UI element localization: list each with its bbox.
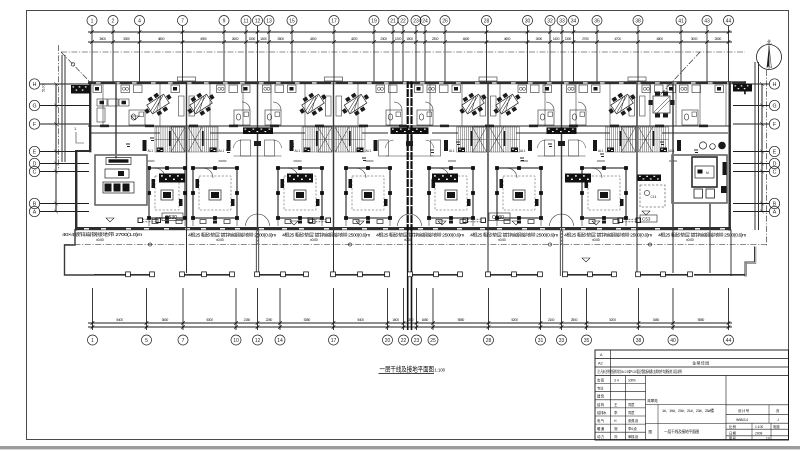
svg-text:34: 34 (571, 18, 577, 24)
svg-text:结 构: 结 构 (597, 402, 605, 407)
svg-text:10: 10 (766, 436, 770, 440)
dashed drops from party walls to loop (187, 230, 674, 245)
svg-text:李4,设: 李4,设 (628, 426, 637, 431)
svg-text:2800: 2800 (277, 37, 284, 41)
bathroom at x=394 (386, 110, 402, 125)
svg-text:H: H (773, 82, 777, 88)
svg-text:20: 20 (385, 338, 391, 344)
svg-text:4600: 4600 (463, 37, 470, 41)
svg-text:会 签: 会 签 (597, 378, 605, 383)
svg-text:AL1: AL1 (598, 149, 604, 153)
dining table group at x=507 (489, 88, 525, 121)
drawing title underline (379, 373, 435, 375)
svg-text:±0.00: ±0.00 (498, 238, 506, 242)
svg-text:7: 7 (181, 18, 184, 24)
right driveway strip edges (755, 62, 759, 230)
svg-text:40: 40 (670, 338, 676, 344)
svg-text:28: 28 (484, 18, 490, 24)
partial party wall x=116 (top band only) (115, 81, 116, 158)
svg-text:图: 图 (649, 430, 653, 434)
svg-text:4根25 粗砂垫层 镀锌扁钢接地带 2500(0.6)m: 4根25 粗砂垫层 镀锌扁钢接地带 2500(0.6)m (470, 232, 559, 239)
svg-text:11: 11 (243, 18, 248, 24)
svg-text:AL1: AL1 (449, 149, 455, 153)
svg-text:2600: 2600 (715, 37, 722, 41)
svg-text:湾翠苑: 湾翠苑 (647, 398, 658, 403)
svg-text:2008: 2008 (755, 432, 763, 436)
svg-text:5550: 5550 (458, 318, 465, 322)
svg-text:E: E (773, 149, 777, 155)
svg-text:4300: 4300 (310, 37, 317, 41)
svg-text:3450: 3450 (653, 318, 660, 322)
svg-text:G: G (32, 103, 36, 109)
svg-text:图 号: 图 号 (729, 435, 737, 440)
svg-text:5200: 5200 (511, 318, 518, 322)
svg-text:5400: 5400 (116, 318, 123, 322)
right courtyard step-up boundary (745, 247, 755, 277)
entry stoop above top wall at x=333.5 (325, 77, 343, 81)
svg-text:12: 12 (255, 338, 261, 344)
bathroom at x=546 (538, 110, 554, 125)
top dimension line upper (88, 31, 732, 33)
dining table group at x=622 (604, 88, 640, 121)
svg-text:40×4镀锌扁钢接地带 2700(1.0)m: 40×4镀锌扁钢接地带 2700(1.0)m (62, 231, 143, 238)
svg-text:页: 页 (776, 409, 780, 413)
svg-text:2: 2 (112, 18, 115, 24)
svg-text:2700: 2700 (582, 37, 589, 41)
svg-text:暖 通: 暖 通 (597, 426, 605, 431)
dining table group at x=201 (183, 88, 219, 121)
svg-text:比 例: 比 例 (729, 424, 737, 429)
svg-text:G: G (772, 103, 776, 109)
porch marks under bedrooms (152, 220, 158, 224)
courtyard party fence verticals (187, 231, 711, 274)
svg-text:北: 北 (766, 39, 771, 46)
svg-text:AL1: AL1 (295, 149, 301, 153)
svg-text:2300: 2300 (432, 37, 439, 41)
svg-text:C530: C530 (165, 215, 177, 221)
svg-text:26: 26 (442, 18, 448, 24)
svg-text:±0.00: ±0.00 (310, 238, 318, 242)
small panel blocks beside stair x=488 (444, 140, 448, 151)
dining table group at x=158 (140, 88, 176, 121)
svg-text:1400: 1400 (553, 37, 560, 41)
bathroom at x=690 (682, 110, 698, 125)
bottom grid bubbles (88, 335, 98, 345)
svg-text:C53: C53 (642, 217, 651, 222)
svg-text:±0.00: ±0.00 (216, 238, 224, 242)
party walls between units (186, 81, 187, 230)
left end-unit living room (95, 155, 147, 205)
svg-text:5300: 5300 (206, 318, 213, 322)
title block outer frame (595, 350, 789, 440)
staircase pair flanking wall x=333.5 (302, 127, 332, 152)
svg-text:AL1: AL1 (669, 149, 675, 153)
svg-text:5400: 5400 (357, 318, 364, 322)
building left wall lower (75, 150, 77, 231)
bathroom at x=578 (570, 110, 586, 125)
title block left sub-table rows (595, 384, 646, 433)
svg-text:M: M (706, 171, 709, 175)
expansion joint verticals to dimension row (408, 231, 412, 331)
svg-text:21: 21 (390, 18, 396, 24)
svg-text:同意: 同意 (628, 410, 635, 415)
dining table group at x=473 (455, 88, 491, 121)
svg-text:金陵佳园: 金陵佳园 (692, 361, 710, 366)
svg-text:同意: 同意 (628, 402, 635, 407)
svg-text:5200: 5200 (609, 318, 616, 322)
svg-text:A2: A2 (598, 362, 603, 366)
svg-text:100%: 100% (628, 379, 636, 383)
entry stoop above top wall at x=637 (628, 77, 646, 81)
left outside label block (71, 85, 90, 94)
staircase pair flanking wall x=186.5 (155, 127, 185, 152)
svg-text:C530: C530 (492, 215, 504, 221)
level marker triangles (106, 116, 650, 262)
svg-text:4800: 4800 (158, 37, 165, 41)
grounding boundary left diagonal (61, 52, 90, 82)
svg-text:一层干线及接地平面图: 一层干线及接地平面图 (664, 429, 699, 434)
small panel blocks beside stair x=186.5 (143, 140, 147, 151)
svg-text:23: 23 (413, 18, 419, 24)
small panel blocks beside stair x=333.5 (290, 140, 294, 151)
expansion joint double wall at centre (407, 81, 409, 230)
top column grid vertical lines (92, 26, 729, 84)
svg-text:1500: 1500 (406, 37, 413, 41)
svg-text:33: 33 (559, 338, 565, 344)
hall wall below stair pair x=488 (448, 160, 528, 162)
svg-text:2100: 2100 (548, 318, 555, 322)
svg-text:38: 38 (636, 338, 642, 344)
label box C530 (162, 213, 183, 221)
building left step wall (75, 150, 91, 152)
bathroom at x=425 (417, 110, 433, 125)
svg-text:32: 32 (547, 18, 553, 24)
svg-text:张勇,设: 张勇,设 (628, 418, 639, 423)
square dining table right end unit (649, 92, 675, 118)
north arrow (757, 39, 782, 70)
entry stoop above top wall at x=186.5 (178, 77, 196, 81)
bathroom at x=273 (265, 110, 281, 125)
svg-text:7: 7 (182, 338, 185, 344)
svg-text:5100: 5100 (42, 84, 46, 92)
title block left sub-table verticals (611, 376, 646, 441)
svg-text:3600: 3600 (162, 318, 169, 322)
svg-text:4根25 粗砂垫层 镀锌扁钢接地带 2500(0.6)m: 4根25 粗砂垫层 镀锌扁钢接地带 2500(0.6)m (658, 232, 747, 239)
door swing arcs (155, 102, 602, 226)
distribution label blocks (dark) (243, 127, 273, 134)
building exterior bottom wall (75, 227, 731, 230)
left vertical dimension chain (55, 84, 57, 212)
unit 637-672 dark label block (638, 175, 662, 182)
svg-text:23: 23 (414, 338, 420, 344)
svg-text:AL1: AL1 (219, 149, 225, 153)
partial party wall x=710 (lower band only) (709, 203, 710, 230)
svg-text:E: E (33, 149, 37, 155)
svg-text:30: 30 (525, 18, 531, 24)
svg-text:22: 22 (400, 18, 406, 24)
building right wall (729, 81, 731, 230)
svg-text:一层干线及接地平面图: 一层干线及接地平面图 (380, 364, 435, 373)
svg-text:24: 24 (422, 18, 428, 24)
grounding boundary left vertical (58, 45, 60, 170)
svg-text:10: 10 (233, 338, 239, 344)
left driveway step mark (76, 132, 84, 143)
svg-text:AL1: AL1 (148, 149, 154, 153)
bedroom suite at x=167 (147, 166, 187, 226)
bedroom suite at x=368 (344, 166, 392, 226)
svg-text:审核,设: 审核,设 (628, 434, 639, 439)
svg-text:AL1: AL1 (520, 149, 526, 153)
top dimension oblique ticks (90, 30, 730, 44)
bottom gray divider strip (0, 446, 800, 449)
svg-text:±0.00: ±0.00 (96, 238, 104, 242)
bedroom suite at x=300 (276, 166, 324, 226)
unit 637-672 dashed room (640, 185, 665, 207)
svg-text:1500: 1500 (249, 37, 256, 41)
hall wall below stair pair x=333.5 (294, 160, 374, 162)
svg-text:F: F (773, 122, 776, 128)
hall wall below stair pair x=637 (597, 160, 677, 162)
hallway closets and arcs at dining walls (241, 140, 251, 156)
svg-text:5: 5 (145, 338, 148, 344)
svg-text:1: 1 (91, 18, 94, 24)
svg-text:5550: 5550 (698, 318, 705, 322)
svg-text:22: 22 (401, 338, 407, 344)
svg-text:4根25 粗砂垫层 镀锌扁钢接地带 2500(0.6)m: 4根25 粗砂垫层 镀锌扁钢接地带 2500(0.6)m (376, 232, 465, 239)
svg-text:13: 13 (266, 18, 272, 24)
dining table group at x=355.5 (338, 88, 374, 121)
svg-text:A: A (33, 209, 37, 215)
svg-text:44: 44 (726, 18, 732, 24)
svg-text:1400: 1400 (260, 37, 267, 41)
svg-text:2150: 2150 (244, 318, 251, 322)
small panel blocks beside stair x=637 (593, 140, 597, 151)
left driveway strip edges (62, 55, 65, 162)
title block main horizontal rules (595, 359, 789, 376)
svg-text:4根25 粗砂垫层 镀锌扁钢接地带 2500(0.6)m: 4根25 粗砂垫层 镀锌扁钢接地带 2500(0.6)m (188, 232, 277, 239)
left end-unit kitchen block (97, 99, 107, 106)
svg-text:44: 44 (726, 338, 732, 344)
right end-unit chairs (694, 189, 703, 198)
svg-text:41: 41 (678, 18, 684, 24)
svg-text:3300: 3300 (123, 37, 130, 41)
svg-text:H: H (33, 82, 37, 88)
svg-text:4900: 4900 (200, 37, 207, 41)
svg-text:33: 33 (559, 18, 565, 24)
staircase pair flanking wall x=488 (457, 127, 487, 152)
svg-text:建 筑: 建 筑 (597, 394, 605, 399)
expansion joint rungs (407, 88, 413, 89)
svg-text:2500: 2500 (571, 318, 578, 322)
svg-text:2250: 2250 (266, 318, 273, 322)
building exterior top wall (88, 81, 746, 84)
right outside label block (733, 84, 752, 92)
svg-text:35: 35 (584, 338, 590, 344)
svg-text:17: 17 (331, 18, 337, 24)
svg-text:3 4: 3 4 (614, 379, 619, 383)
svg-text:C14: C14 (651, 195, 657, 199)
left courtyard stepped wall (65, 229, 95, 275)
svg-text:W98-S-4: W98-S-4 (736, 418, 748, 422)
svg-text:38: 38 (635, 18, 641, 24)
svg-text:12: 12 (255, 18, 261, 24)
svg-text:1:100: 1:100 (435, 367, 446, 372)
top grid bubbles (87, 16, 97, 26)
svg-text:±0.00: ±0.00 (686, 238, 694, 242)
left row grid bubbles H..A (29, 79, 39, 89)
hall wall below stair pair x=186.5 (147, 160, 227, 162)
svg-text:5350: 5350 (304, 318, 311, 322)
svg-text:1#、19#、20#、21#、23#、25#楼: 1#、19#、20#、21#、23#、25#楼 (662, 408, 714, 413)
svg-text:注:凡未注明的配线均为BV-2.5穿PC16管沿墙楼板暗敷,: 注:凡未注明的配线均为BV-2.5穿PC16管沿墙楼板暗敷,金属构件均需接地,详… (598, 369, 683, 374)
svg-text:2600: 2600 (536, 37, 543, 41)
bedroom suite at x=519 (495, 166, 543, 226)
lower distribution blocks (159, 174, 185, 183)
title block row1 divider and A (610, 350, 612, 376)
misc small marks mid band (126, 138, 698, 161)
svg-text:动 力: 动 力 (597, 434, 605, 439)
building left wall upper (89, 81, 91, 152)
svg-text:A: A (773, 209, 777, 215)
right boundary dash-dot vertical (766, 70, 768, 246)
svg-text:3600: 3600 (99, 37, 106, 41)
unit 637-672 label box (640, 215, 657, 222)
svg-text:36: 36 (594, 18, 600, 24)
svg-text:1300: 1300 (565, 37, 572, 41)
svg-text:4根25 粗砂垫层 镀锌扁钢接地带 2500(0.6)m: 4根25 粗砂垫层 镀锌扁钢接地带 2500(0.6)m (282, 232, 371, 239)
svg-text:专业: 专业 (597, 386, 604, 391)
svg-text:1650: 1650 (422, 318, 429, 322)
right end-unit big table (692, 157, 717, 187)
svg-text:给排水: 给排水 (597, 410, 607, 415)
svg-text:1200: 1200 (395, 37, 402, 41)
top band wardrobes (189, 96, 195, 116)
right courtyard corner drop (730, 230, 732, 277)
svg-text:4700: 4700 (614, 37, 621, 41)
svg-text:31: 31 (538, 338, 544, 344)
svg-text:1600: 1600 (392, 318, 399, 322)
svg-text:C: C (33, 169, 37, 175)
bedroom suite at x=215 (191, 166, 239, 226)
bottom dimension line lower (88, 326, 732, 328)
bathroom at x=242 (234, 110, 250, 125)
grounding boundary right diagonal (660, 52, 700, 95)
svg-text:17: 17 (331, 338, 337, 344)
svg-text:28: 28 (486, 338, 492, 344)
svg-text:2600: 2600 (232, 37, 239, 41)
right vertical dimension chain (761, 84, 763, 212)
title block middle cell (725, 376, 727, 441)
right end-unit wall cabinet (723, 162, 727, 175)
grounding loop dash-dot below building (64, 244, 767, 246)
svg-text:AL1: AL1 (366, 149, 372, 153)
svg-text:电 气: 电 气 (597, 418, 605, 423)
svg-text:1: 1 (91, 338, 94, 344)
svg-text:4根25 粗砂垫层 镀锌扁钢接地带 2500(0.6)m: 4根25 粗砂垫层 镀锌扁钢接地带 2500(0.6)m (564, 232, 653, 239)
svg-text:电施: 电施 (773, 424, 780, 429)
svg-text:4600: 4600 (504, 37, 511, 41)
staircase pair flanking wall x=637 (606, 127, 636, 152)
svg-text:J: J (777, 418, 779, 422)
courtyard double verticals (256, 231, 258, 277)
svg-text:4: 4 (138, 18, 141, 24)
window sill segments on inner wall (100, 125, 109, 128)
svg-text:3000: 3000 (691, 37, 698, 41)
bottom extension lines (93, 288, 729, 330)
bedroom suite at x=451 (427, 166, 475, 226)
svg-text:19: 19 (371, 18, 377, 24)
dashed duct connectors (138, 218, 143, 223)
svg-text:9: 9 (223, 18, 226, 24)
svg-text:C: C (773, 169, 777, 175)
right top corner stub (744, 81, 746, 94)
svg-text:4800: 4800 (656, 37, 663, 41)
bottom dimension oblique ticks (91, 321, 731, 329)
top band partitions (103, 84, 726, 126)
svg-text:日 期: 日 期 (729, 431, 737, 436)
svg-text:F: F (33, 122, 36, 128)
svg-text:1:100: 1:100 (755, 425, 763, 429)
svg-text:2300: 2300 (380, 37, 387, 41)
right end-unit living room (672, 155, 727, 203)
svg-text:1300: 1300 (407, 318, 414, 322)
svg-text:43: 43 (704, 18, 710, 24)
kitchen counter rows along top wall (93, 85, 102, 93)
svg-text:14: 14 (277, 338, 283, 344)
svg-text:4200: 4200 (351, 37, 358, 41)
marker on left diagonal (71, 63, 74, 66)
svg-text:设 计 号: 设 计 号 (738, 408, 750, 413)
title block right sub-table (726, 405, 789, 436)
interior horizontal wall under dining band (88, 125, 731, 127)
entry stoop above top wall at x=488 (479, 77, 497, 81)
top dimension line lower (88, 41, 732, 43)
bathroom at x=137 (129, 110, 145, 125)
svg-text:±0.00: ±0.00 (592, 238, 600, 242)
svg-text:25: 25 (430, 338, 436, 344)
right end-unit wash basins (699, 142, 706, 149)
bottom dimension line upper (88, 322, 732, 324)
bedroom suite at x=604 (580, 166, 628, 226)
svg-text:15: 15 (289, 18, 295, 24)
right row grid bubbles H..A (769, 79, 779, 89)
interior horizontal wall mid partial (91, 132, 728, 134)
courtyard bottom fence with posts (94, 274, 746, 276)
dining table group at x=313 (295, 88, 331, 121)
grounding loop boundary top run (61, 51, 745, 53)
